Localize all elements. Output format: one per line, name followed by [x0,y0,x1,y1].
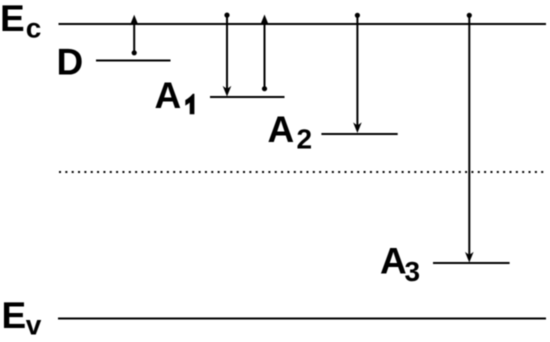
svg-text:E: E [0,0,25,39]
svg-text:A: A [380,241,407,282]
svg-text:3: 3 [405,256,421,287]
svg-text:E: E [2,295,27,336]
svg-text:A: A [268,109,295,150]
svg-text:D: D [57,41,84,82]
svg-text:2: 2 [297,124,313,155]
svg-text:A: A [155,75,182,116]
svg-text:c: c [26,13,42,44]
svg-text:v: v [26,310,42,341]
